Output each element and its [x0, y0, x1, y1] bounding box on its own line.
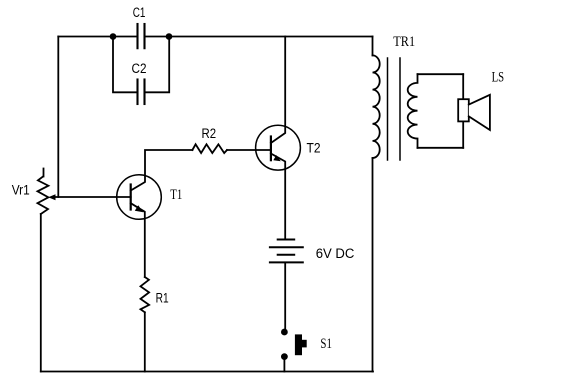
wire: top bus right segment — [145, 36, 373, 38]
wire: battery to switch — [284, 262, 286, 330]
svg-text:Vr1: Vr1 — [12, 182, 30, 198]
switch S1 push button bar — [295, 334, 302, 355]
wire: C2 branch right — [145, 37, 170, 93]
capacitor C2 — [138, 80, 145, 105]
transformer TR1 core line left — [387, 58, 389, 160]
transistor T1 emitter arrow — [135, 205, 144, 212]
switch S1 push button nub — [302, 340, 307, 348]
wire: top bus left segment — [58, 36, 137, 38]
wire: bottom bus — [41, 371, 373, 373]
wire: switch to bottom bus — [283, 357, 285, 372]
potentiometer Vr1 top stub — [43, 169, 45, 177]
svg-text:LS: LS — [492, 70, 505, 86]
resistor R2 zigzag — [192, 144, 227, 153]
wire: R2 to T2 base — [227, 149, 271, 151]
wire: wiper line to T1 base — [54, 196, 131, 198]
svg-text:R1: R1 — [156, 291, 169, 307]
battery B1 plates — [270, 240, 303, 263]
wiper arrow head of Vr1 — [48, 194, 55, 200]
potentiometer Vr1 zigzag body — [38, 177, 49, 215]
transistor T2 circle — [256, 125, 301, 170]
svg-text:TR1: TR1 — [393, 34, 415, 50]
wire: secondary loop right — [462, 74, 464, 148]
svg-text:C2: C2 — [132, 61, 147, 77]
wire: primary bottom lead to bottom bus — [372, 158, 374, 372]
transistor T2 emitter arrow — [273, 155, 281, 161]
node: junction dot left — [110, 33, 117, 40]
transistor T2 emitter lead down to battery — [271, 154, 285, 240]
switch S1 top contact dot — [281, 329, 288, 336]
wire: left vertical bus — [57, 37, 59, 198]
transistor T1 base bar — [130, 185, 132, 210]
node: junction dot right — [166, 33, 173, 40]
wire: Vr1 bottom lead to bottom bus — [40, 214, 42, 372]
transformer TR1 secondary coil — [408, 74, 418, 148]
svg-text:R2: R2 — [202, 126, 217, 142]
svg-text:S1: S1 — [320, 336, 332, 352]
wire: secondary loop top — [418, 73, 464, 75]
switch S1 bottom contact dot — [281, 353, 288, 360]
wire: R1 bottom lead — [144, 312, 146, 371]
transistor T1 circle — [117, 175, 162, 220]
svg-text:T1: T1 — [170, 187, 182, 203]
svg-text:T2: T2 — [307, 141, 321, 157]
wire: secondary loop bottom — [418, 147, 464, 149]
transistor T1 emitter lead down — [131, 203, 145, 277]
transistor T2 base bar — [270, 137, 272, 161]
transformer TR1 core line right — [399, 58, 401, 160]
transistor T2 collector lead up to top bus — [271, 37, 285, 144]
transistor T1 collector lead up to R2 corner — [131, 150, 193, 191]
svg-text:C1: C1 — [133, 5, 146, 21]
loudspeaker LS driver rectangle — [458, 99, 469, 121]
wire: C2 branch left — [113, 37, 138, 93]
resistor R1 zigzag — [141, 277, 150, 312]
capacitor C1 — [138, 24, 145, 48]
transformer TR1 primary lead from top bus — [372, 37, 374, 56]
loudspeaker LS cone — [469, 95, 490, 130]
svg-text:6V DC: 6V DC — [316, 246, 355, 262]
transformer TR1 primary coil — [373, 55, 380, 158]
